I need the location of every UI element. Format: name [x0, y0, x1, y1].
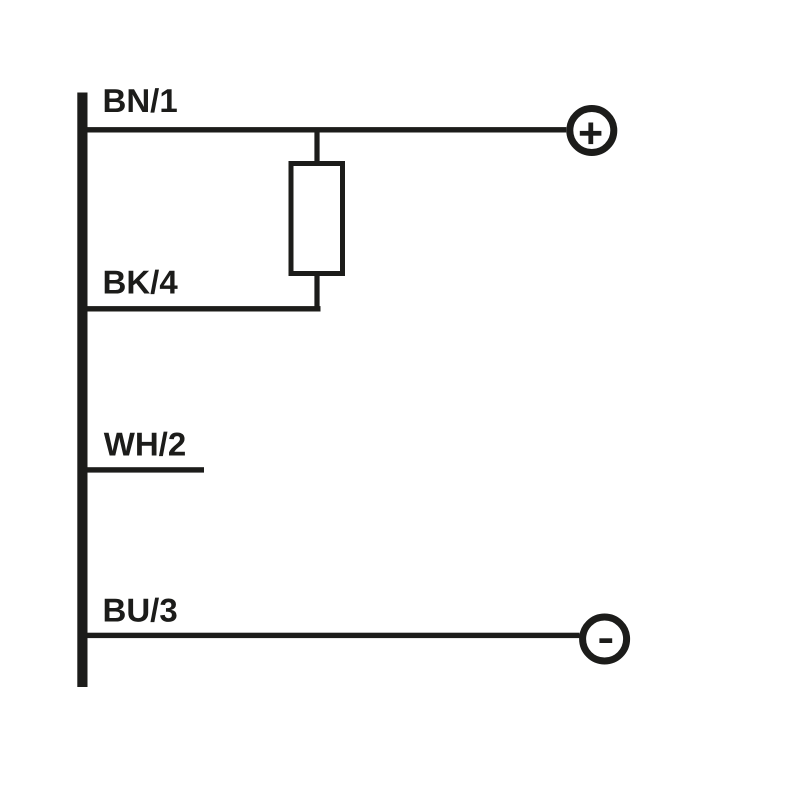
terminal - (minus output circle)	[583, 617, 627, 661]
resistor (load between BN/1 and BK/4)	[291, 164, 343, 274]
wire BU/3	[88, 633, 580, 638]
terminal + (plus output circle)	[570, 109, 614, 153]
svg-text:BN/1: BN/1	[103, 82, 178, 119]
wire BK/4	[88, 306, 321, 311]
wire BN/1	[88, 127, 567, 132]
svg-text:WH/2: WH/2	[104, 425, 187, 462]
bus bar (vertical connection rail)	[77, 93, 87, 688]
svg-text:BU/3: BU/3	[103, 591, 178, 628]
wire stub from BN/1 to resistor top	[314, 130, 319, 162]
wire WH/2	[88, 467, 205, 472]
wire stub from resistor bottom to BK/4	[314, 276, 319, 312]
svg-text:BK/4: BK/4	[103, 263, 179, 300]
